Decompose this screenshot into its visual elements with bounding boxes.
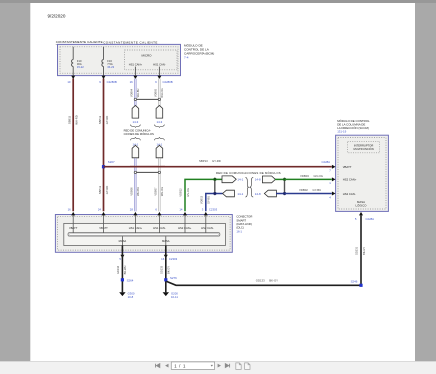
svg-text:C228A: C228A — [322, 160, 331, 164]
svg-text:GN-OG: GN-OG — [314, 174, 323, 178]
svg-text:16: 16 — [68, 207, 72, 211]
terminal G — [262, 176, 275, 183]
svg-text:HS1 CAN+: HS1 CAN+ — [129, 63, 143, 67]
svg-text:MASA: MASA — [119, 239, 127, 243]
svg-text:VBATT: VBATT — [343, 165, 352, 169]
wire inside BCM to fuse F16 — [103, 47, 105, 76]
SCCM pin arrow VBATT — [322, 160, 352, 173]
splice S246 — [351, 279, 363, 287]
svg-text:LÓGICO: LÓGICO — [356, 203, 368, 208]
toolbar — [0, 361, 436, 374]
svg-text:VDB03: VDB03 — [300, 174, 309, 178]
ground G300 — [119, 291, 135, 299]
svg-text:VDB05: VDB05 — [153, 88, 157, 97]
svg-text:16: 16 — [130, 80, 134, 84]
wire VDB05 upper — [153, 79, 164, 106]
junction bar right — [283, 178, 286, 196]
SCCM pin arrow HS2 CAN- — [329, 192, 356, 200]
svg-text:GY-RD: GY-RD — [105, 186, 109, 194]
net label RED DE COMUNICACIONES block — [124, 129, 154, 137]
label CONSTANTEMENTE CALIENTE 1 — [56, 40, 103, 44]
svg-text:7-4: 7-4 — [184, 55, 189, 59]
twisted pair link upper — [134, 98, 160, 100]
brace under A — [130, 125, 140, 128]
DLC connector strip — [68, 233, 220, 236]
svg-text:28: 28 — [130, 207, 134, 211]
svg-text:VDB04: VDB04 — [129, 88, 133, 97]
wire VDB07 lower — [153, 158, 164, 211]
svg-text:14-1: 14-1 — [237, 192, 243, 196]
toolbar prev icon — [165, 364, 168, 368]
toolbar export icon 1 — [236, 363, 241, 370]
brace over D — [154, 137, 164, 140]
svg-text:10-11: 10-11 — [171, 295, 178, 299]
svg-text:BK-GY: BK-GY — [269, 279, 278, 283]
svg-text:C2303: C2303 — [169, 257, 178, 261]
wire GD133 horizontal to S-right — [167, 279, 362, 286]
wire VDB12 green from DLC — [179, 179, 222, 211]
DLC bottom pin arrows — [120, 255, 167, 258]
svg-text:C228A: C228A — [366, 217, 375, 221]
svg-text:131-19: 131-19 — [337, 129, 346, 133]
wire inside BCM to fuse F10 — [72, 47, 74, 76]
svg-text:15-22: 15-22 — [77, 65, 84, 69]
module U2 SCCM box — [336, 135, 389, 211]
svg-text:VDB07: VDB07 — [153, 187, 157, 196]
svg-text:GY-RD: GY-RD — [212, 159, 221, 163]
fuse F10 — [72, 59, 85, 69]
fuse F16 — [102, 59, 115, 69]
svg-text:24: 24 — [98, 207, 102, 211]
net label RED DE COMUNICACIONES DE MODULOS horizontal — [216, 170, 281, 175]
DLC name label — [236, 215, 252, 234]
svg-text:C2303: C2303 — [209, 207, 218, 211]
terminal up D — [156, 145, 163, 158]
svg-text:SBP13: SBP13 — [98, 185, 102, 194]
svg-text:14-1: 14-1 — [237, 178, 243, 182]
module U1 BCM box — [58, 44, 181, 75]
SCCM ground pin arrow — [355, 212, 374, 221]
svg-text:WH-BU: WH-BU — [136, 88, 140, 97]
wire SBP13 crossing overlay — [130, 166, 165, 168]
svg-text:14-3: 14-3 — [157, 120, 163, 124]
svg-text:WH-OG: WH-OG — [160, 88, 164, 97]
svg-text:C2280B: C2280B — [163, 80, 173, 84]
splice S207 — [102, 160, 115, 168]
connector DLC outer box — [55, 215, 232, 253]
svg-text:HS2 CAN+: HS2 CAN+ — [343, 178, 357, 182]
svg-text:WH-RD: WH-RD — [75, 115, 79, 124]
terminal H — [264, 190, 276, 197]
SCCM masa logica label — [356, 200, 368, 208]
svg-text:MICRO: MICRO — [142, 54, 153, 58]
brace under B — [154, 125, 164, 128]
label CONSTANTEMENTE CALIENTE 2 — [103, 40, 158, 44]
toolbar export icon 2 — [245, 363, 250, 370]
svg-text:10-8: 10-8 — [128, 295, 134, 299]
svg-text:16-1: 16-1 — [236, 229, 242, 233]
splice S276 — [164, 276, 177, 282]
DLC top pin numbers — [68, 207, 218, 211]
wire SBP13 horizontal to SCCM — [104, 159, 332, 167]
junction bar left — [214, 178, 217, 196]
wire stubs to junction bar right — [275, 179, 285, 193]
terminal up C — [132, 145, 139, 158]
svg-text:S246: S246 — [351, 279, 358, 283]
svg-text:WH-BU: WH-BU — [136, 187, 140, 196]
BCM pin arrow 1 — [71, 76, 75, 80]
svg-text:CONSTANTEMENTE CALIENTE: CONSTANTEMENTE CALIENTE — [103, 40, 158, 44]
link 14-3 labels — [133, 120, 163, 124]
wire SBP13 vertical — [98, 79, 109, 212]
BCM pin numbers — [67, 80, 172, 84]
svg-text:BK-GY: BK-GY — [362, 247, 366, 255]
svg-text:SBP13: SBP13 — [199, 159, 208, 163]
toolbar first page icon — [156, 364, 160, 368]
DLC masa stubs — [119, 236, 170, 246]
svg-text:CONSTANTEMENTE CALIENTE: CONSTANTEMENTE CALIENTE — [56, 40, 103, 44]
BCM pin arrow 2 — [102, 76, 106, 80]
toolbar last page icon — [225, 364, 229, 368]
brace over C — [130, 137, 140, 140]
svg-text:S207: S207 — [108, 160, 115, 164]
DLC bottom pin numbers — [119, 257, 177, 261]
svg-text:16: 16 — [161, 257, 165, 261]
svg-text:VDB06: VDB06 — [129, 187, 133, 196]
svg-text:BK-WH: BK-WH — [123, 266, 127, 275]
svg-text:SBP13: SBP13 — [98, 115, 102, 124]
svg-text:9/2/2020: 9/2/2020 — [48, 13, 66, 18]
wire GD133 ground right — [159, 245, 170, 292]
toolbar next icon — [218, 364, 221, 368]
BCM pin arrow 4 — [157, 76, 161, 80]
svg-text:S264: S264 — [127, 278, 134, 282]
svg-text:HS2 CAN-: HS2 CAN- — [201, 226, 214, 230]
svg-text:HS2 CAN-: HS2 CAN- — [343, 192, 356, 196]
svg-text:14-8: 14-8 — [255, 192, 261, 196]
svg-text:HS1 CAN-: HS1 CAN- — [153, 63, 166, 67]
wire VDB04 upper — [129, 79, 140, 106]
connector DLC inner box — [64, 223, 226, 245]
DLC internal pin stubs — [73, 215, 206, 232]
twisted pair link lower — [134, 171, 160, 173]
svg-text:C2280B: C2280B — [107, 80, 117, 84]
svg-text:GY-BU: GY-BU — [207, 196, 211, 204]
svg-text:GY-BU: GY-BU — [313, 188, 322, 192]
splice S264 — [121, 278, 134, 282]
svg-text:1 / 1: 1 / 1 — [174, 363, 186, 368]
SCCM module label — [337, 118, 370, 133]
DLC top pin arrows — [71, 212, 208, 216]
wire VDB06 lower — [129, 158, 140, 211]
module MICRO sub-box — [125, 50, 177, 70]
terminal E right — [222, 176, 244, 183]
svg-text:S276: S276 — [170, 276, 177, 280]
toolbar page input — [171, 362, 214, 370]
svg-text:GY-RD: GY-RD — [105, 116, 109, 124]
wire VDB02 blue to SCCM — [285, 188, 332, 193]
svg-text:MASA: MASA — [162, 239, 170, 243]
wire GD134 ground left — [116, 245, 127, 292]
svg-text:GD133: GD133 — [159, 265, 163, 274]
terminal down A — [132, 105, 139, 118]
svg-text:15-23: 15-23 — [107, 65, 114, 69]
wire VDB13 blue from DLC — [199, 194, 222, 212]
svg-text:14: 14 — [179, 207, 183, 211]
terminal F left — [223, 190, 244, 197]
svg-text:14-3: 14-3 — [133, 120, 139, 124]
wire GD231 SCCM ground vertical — [355, 215, 366, 285]
svg-text:VDB12: VDB12 — [179, 188, 183, 197]
terminal down B — [156, 105, 163, 118]
pin HS1 CAN- label in MICRO — [153, 63, 166, 76]
svg-text:SBB15: SBB15 — [68, 115, 72, 124]
svg-text:VDB13: VDB13 — [199, 195, 203, 204]
svg-text:VDB02: VDB02 — [299, 188, 308, 192]
wire SBB15 vertical — [68, 79, 79, 212]
DLC pin labels row — [69, 226, 214, 230]
svg-text:RED DE COMUNICACIONES DE MÓDUL: RED DE COMUNICACIONES DE MÓDULOS — [216, 170, 281, 175]
svg-text:CARROCERÍA (BCM): CARROCERÍA (BCM) — [184, 51, 214, 55]
svg-text:GD134: GD134 — [116, 265, 120, 274]
wire VDB03 green to SCCM — [285, 174, 332, 179]
link 14-1 labels upper — [133, 143, 163, 147]
svg-text:CIONES DE MÓDULOS: CIONES DE MÓDULOS — [124, 131, 154, 136]
brace right-closing — [245, 177, 248, 197]
date text — [48, 13, 66, 18]
ground G200 — [163, 291, 179, 299]
brace left-opening — [250, 177, 253, 197]
svg-text:BK-GY: BK-GY — [167, 266, 171, 274]
BCM pin arrow 3 — [133, 76, 137, 80]
svg-text:GD231: GD231 — [355, 246, 359, 255]
switch INTERRUPTOR MULTIFUNCION box — [348, 141, 380, 152]
svg-text:GD133: GD133 — [256, 279, 265, 283]
svg-text:WH-OG: WH-OG — [160, 187, 164, 196]
svg-text:INTERRUPTOR: INTERRUPTOR — [354, 143, 373, 147]
link 14-8 labels — [255, 178, 261, 196]
module U1 BCM name label — [184, 42, 214, 59]
svg-text:GN-OG: GN-OG — [186, 188, 190, 197]
svg-text:14-8: 14-8 — [255, 178, 261, 182]
SCCM pin arrow HS2 CAN+ — [329, 177, 357, 185]
svg-text:10: 10 — [67, 80, 71, 84]
pin HS1 CAN+ label in MICRO — [129, 63, 143, 76]
